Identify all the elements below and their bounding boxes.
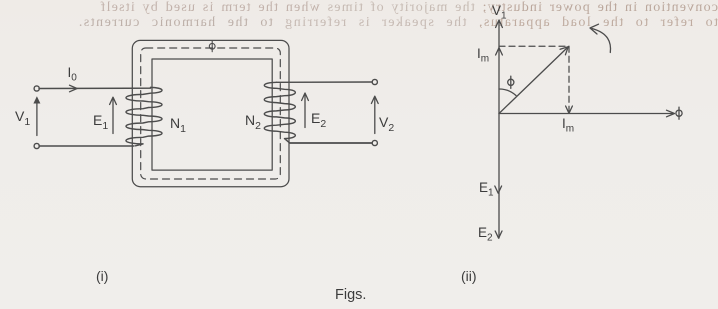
output terminal top [372, 79, 377, 84]
voltage V2 arrow [371, 96, 378, 133]
label N1 [170, 115, 186, 135]
label N2 [245, 112, 261, 132]
angle phi arc [499, 89, 516, 96]
input terminal bottom [34, 143, 39, 148]
label V2 [379, 114, 394, 134]
label phi angle symbol [508, 76, 514, 88]
caption (i) [96, 268, 108, 284]
E2 arrowhead at bottom of axis [495, 231, 502, 238]
magnetising current phasor (diagonal) [499, 47, 569, 114]
label Im lower [562, 116, 574, 135]
caption (ii) [461, 268, 477, 284]
input terminal top [34, 86, 39, 91]
secondary winding N2 coil [264, 82, 295, 143]
emf E1 arrow [110, 97, 117, 133]
caption Figs. [335, 287, 366, 303]
flux symbol phi at top of core [209, 41, 215, 51]
mirrored bleed-through text line 1 [0, 0, 718, 16]
rotation direction curved arrow [590, 24, 611, 52]
transformer core dashed flux path [141, 48, 281, 179]
label phi axis symbol [676, 107, 682, 119]
primary winding N1 coil [126, 87, 162, 145]
label E2 phasor [478, 225, 493, 244]
output terminal bottom [372, 140, 377, 145]
label Im upper [477, 46, 489, 65]
label V1 phasor [492, 3, 507, 22]
label E1 [93, 112, 108, 132]
magnetising current Im arrowhead on vertical axis [496, 48, 503, 55]
wire: top-right conductor from N2 to output terminal [277, 81, 373, 83]
dashed projection vertical [566, 46, 573, 113]
phasor horizontal axis phi [499, 110, 675, 117]
wire: bottom-left conductor from input terminal to core [39, 145, 134, 147]
transformer core outer boundary [132, 40, 289, 186]
label V1 [15, 108, 30, 128]
label I0 [68, 65, 77, 84]
wire: top-left conductor from input terminal to N1 [39, 87, 151, 89]
current I0 arrowhead on top-left wire [70, 85, 78, 92]
emf E2 arrow [302, 93, 309, 128]
phasor vertical axis V1 [496, 20, 503, 238]
label E1 phasor [479, 180, 494, 199]
wire: bottom-right conductor from N2 to output terminal [290, 142, 372, 144]
label E2 [311, 110, 326, 130]
E1 arrowhead on downward axis [495, 186, 502, 193]
dashed projection horizontal [499, 45, 569, 47]
voltage V1 arrow [33, 96, 40, 135]
mirrored bleed-through text line 2 [0, 15, 718, 31]
transformer core window [152, 59, 272, 170]
